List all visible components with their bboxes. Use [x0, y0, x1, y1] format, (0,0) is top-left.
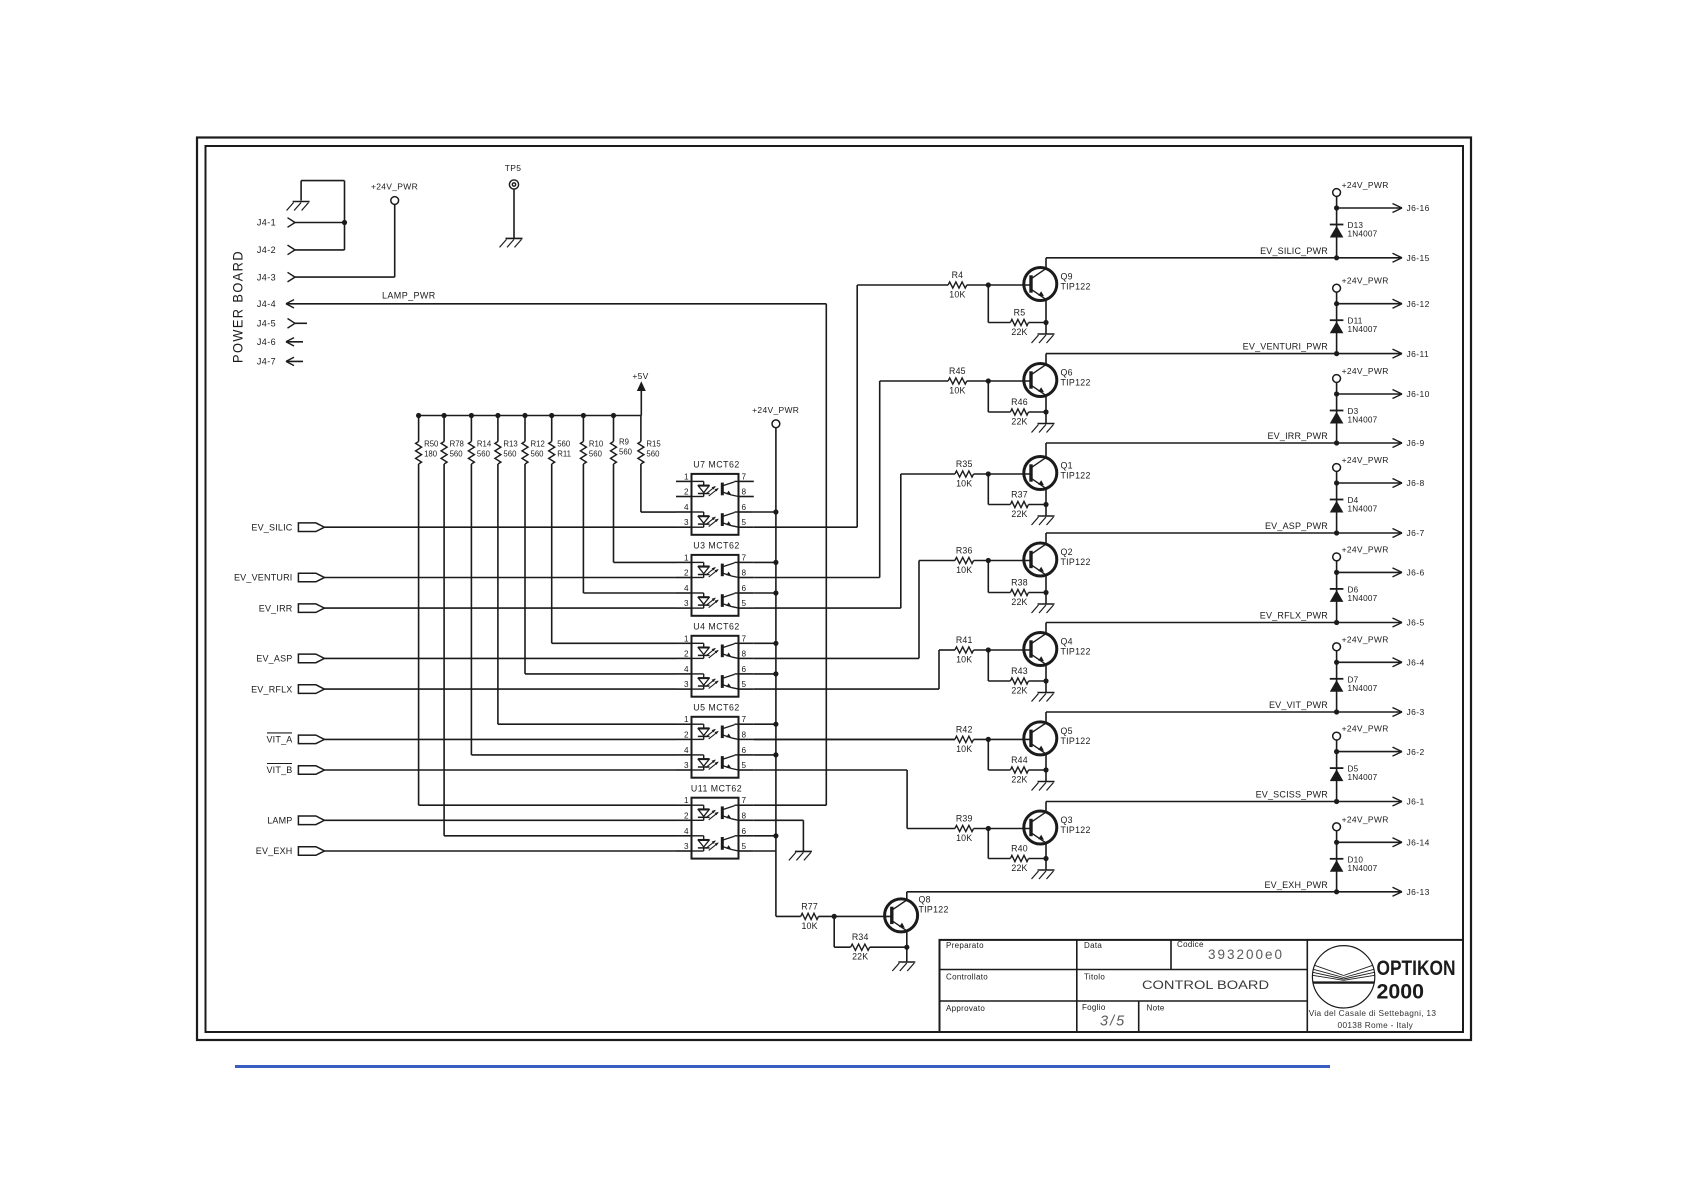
label +24V_PWR (EV_ASP_PWR) [1342, 455, 1389, 465]
svg-text:6: 6 [742, 827, 747, 836]
wire +24V down through diode D4 [1336, 471, 1338, 533]
connector pin J4-3 [288, 272, 296, 282]
arrow J6-11 [1393, 349, 1403, 358]
svg-text:R78: R78 [450, 440, 464, 449]
label R11 value [557, 440, 571, 459]
wire R77 left from trunk [776, 915, 801, 917]
svg-text:1N4007: 1N4007 [1348, 505, 1378, 514]
optocoupler U11 MCT62 body [692, 798, 739, 859]
resistor R78 560 [441, 416, 447, 465]
svg-text:U5 MCT62: U5 MCT62 [693, 703, 740, 713]
U3 channel 2 LED and phototransistor [692, 593, 739, 608]
label J6-3 [1407, 707, 1425, 717]
junction emitter node Q6 [1043, 409, 1048, 414]
wire EV_SILIC to optocoupler [324, 526, 676, 528]
svg-text:U7 MCT62: U7 MCT62 [693, 460, 740, 470]
wire U4 pin7 to +24V trunk [754, 642, 776, 644]
label R35 [956, 459, 973, 469]
svg-text:VIT_B: VIT_B [266, 765, 292, 775]
junction base node Q1 [986, 471, 991, 476]
label Q9 TIP122 [1061, 282, 1091, 292]
svg-text:1: 1 [684, 715, 689, 724]
resistor R42 10K [955, 736, 974, 742]
U11 pin 5 stub [739, 850, 754, 852]
wire R42 left [754, 738, 955, 740]
svg-text:3/5: 3/5 [1100, 1014, 1126, 1030]
wire EV_IRR_PWR row [1046, 442, 1402, 444]
svg-text:J4-5: J4-5 [257, 319, 276, 329]
ground TP5 [500, 238, 523, 247]
junction +5V bus at R50 [416, 413, 421, 418]
U7 pin 5 stub [739, 526, 754, 528]
U3 pin 5 number [742, 599, 747, 608]
wire R12 column down and over to optocoupler anode [525, 464, 676, 674]
junction +24V trunk at U11 [773, 833, 778, 838]
wire to J6-2 [1337, 751, 1402, 753]
svg-text:22K: 22K [1011, 686, 1027, 696]
svg-text:J6-3: J6-3 [1407, 707, 1425, 717]
label R45 [949, 366, 966, 376]
svg-text:OPTIKON: OPTIKON [1377, 956, 1456, 980]
title block frame [940, 940, 1464, 1032]
ground for J4-1/J4-2 [287, 202, 310, 211]
svg-text:4: 4 [684, 503, 689, 512]
wire R4 left [857, 284, 948, 286]
wire EV_SCISS_PWR row [1046, 801, 1402, 803]
junction +5V bus at R14 [469, 413, 474, 418]
svg-text:EV_SILIC_PWR: EV_SILIC_PWR [1260, 246, 1328, 256]
resistor R13 560 [495, 416, 501, 465]
svg-text:EV_RFLX: EV_RFLX [251, 684, 292, 694]
resistor R50 180 [416, 416, 422, 465]
arrow J6-6 [1393, 568, 1403, 577]
svg-text:Controllato: Controllato [946, 973, 988, 982]
svg-text:10K: 10K [801, 921, 817, 931]
arrow J6-15 [1393, 253, 1403, 262]
wire Q4 collector [1045, 623, 1047, 634]
wire base node down to R43 [988, 650, 1010, 681]
ground Q8 emitter [892, 962, 915, 971]
wire EV_VENTURI to optocoupler [324, 577, 676, 579]
wire +24V down through diode D6 [1336, 561, 1338, 623]
resistor R4 10K [948, 282, 967, 288]
ground Q6 emitter [1032, 424, 1055, 433]
svg-text:22K: 22K [1011, 775, 1027, 785]
svg-text:J6-11: J6-11 [1407, 349, 1430, 359]
resistor R12 560 [522, 416, 528, 465]
svg-text:+24V_PWR: +24V_PWR [371, 182, 418, 192]
connector pin J4-1 [288, 218, 296, 228]
arrow J6-12 [1393, 299, 1403, 308]
transistor Q9 TIP122 [1024, 268, 1057, 301]
net label EV_IRR [259, 603, 293, 613]
svg-text:J6-4: J6-4 [1407, 658, 1425, 668]
svg-text:7: 7 [742, 553, 747, 562]
transistor Q8 TIP122 [885, 899, 918, 932]
label D13 value 1N4007 [1348, 230, 1378, 239]
net label EV_RFLX_PWR [1260, 611, 1329, 621]
signal flag EV_IRR [298, 604, 324, 613]
junction +5V bus at R10 [581, 413, 586, 418]
junction J6-12 branch [1334, 301, 1339, 306]
U4 pin 5 number [742, 680, 747, 689]
U3 pin 6 stub [739, 592, 754, 594]
U7 pin 1 stub [676, 480, 692, 482]
signal flag EV_EXH [298, 847, 324, 856]
ground U11 pin8 [789, 851, 812, 860]
junction EV_VIT_PWR node [1334, 709, 1339, 714]
label R41 value 10K [956, 655, 972, 665]
ground Q9 emitter [1032, 334, 1055, 343]
resistor R38 22K [1010, 589, 1028, 595]
svg-text:U4 MCT62: U4 MCT62 [693, 622, 740, 632]
U11 pin 6 stub [739, 835, 754, 837]
svg-text:1N4007: 1N4007 [1348, 416, 1378, 425]
label Q3 [1061, 815, 1073, 825]
svg-text:R44: R44 [1011, 755, 1028, 765]
U3 pin 2 stub [676, 577, 692, 579]
junction +5V bus at R13 [495, 413, 500, 418]
label J6-15 [1407, 253, 1430, 263]
svg-text:2000: 2000 [1377, 980, 1425, 1004]
U4 pin 7 number [742, 634, 747, 643]
svg-text:TIP122: TIP122 [1061, 825, 1091, 835]
svg-text:J4-4: J4-4 [257, 299, 276, 309]
junction EV_EXH_PWR node [1334, 889, 1339, 894]
wire R78 column down and over to optocoupler anode [444, 464, 676, 836]
power terminal +24V_PWR (block EV_VIT_PWR) [1333, 643, 1341, 651]
wire +24V down through diode D5 [1336, 740, 1338, 802]
wire EV_VENTURI_PWR row [1046, 353, 1402, 355]
resistor R77 10K [801, 913, 819, 919]
resistor R39 10K [955, 825, 974, 831]
arrow J6-1 [1393, 797, 1403, 806]
label D5 [1348, 765, 1359, 774]
label R37 value 22K [1011, 509, 1027, 519]
wire to J6-4 [1337, 661, 1402, 663]
wire R4 to base node [967, 284, 1031, 286]
label R44 [1011, 755, 1028, 765]
svg-text:7: 7 [742, 634, 747, 643]
label D10 value 1N4007 [1348, 864, 1378, 873]
label D6 value 1N4007 [1348, 594, 1378, 603]
arrow J6-16 [1393, 204, 1403, 213]
net label EV_VIT_PWR [1269, 700, 1328, 710]
U4 pin 7 stub [739, 642, 754, 644]
net label EV_IRR_PWR [1267, 431, 1328, 441]
label R9 value [619, 438, 633, 457]
U11 pin 2 stub [676, 819, 692, 821]
svg-text:EV_EXH: EV_EXH [256, 846, 293, 856]
svg-text:22K: 22K [1011, 597, 1027, 607]
arrow J6-13 [1393, 887, 1403, 896]
U5 pin 7 stub [739, 723, 754, 725]
label R38 value 22K [1011, 597, 1027, 607]
svg-text:+24V_PWR: +24V_PWR [1342, 180, 1389, 190]
wire base node down to R38 [988, 561, 1010, 593]
resistor R9 560 [611, 416, 617, 465]
svg-text:560: 560 [450, 450, 464, 459]
net label EV_SILIC [251, 522, 292, 532]
svg-text:+24V_PWR: +24V_PWR [1342, 814, 1389, 824]
power terminal +24V_PWR (block EV_EXH_PWR) [1333, 823, 1341, 831]
U5 channel 2 LED and phototransistor [692, 755, 739, 770]
junction J6-14 branch [1334, 840, 1339, 845]
junction EV_VENTURI_PWR node [1334, 351, 1339, 356]
label R77 value 10K [801, 921, 817, 931]
U5 pin 7 number [742, 715, 747, 724]
wire Q6 collector [1045, 354, 1047, 365]
svg-text:J6-5: J6-5 [1407, 618, 1425, 628]
wire U3 pin7 to +24V trunk [754, 561, 776, 563]
resistor R40 22K [1010, 855, 1028, 861]
svg-text:J6-10: J6-10 [1407, 389, 1430, 399]
svg-text:1N4007: 1N4007 [1348, 773, 1378, 782]
wire base node down to R44 [988, 739, 1010, 770]
svg-text:R34: R34 [852, 932, 869, 942]
U4 pin 6 stub [739, 673, 754, 675]
junction Q8 base node [832, 914, 837, 919]
svg-text:R37: R37 [1011, 490, 1028, 500]
label D7 value 1N4007 [1348, 684, 1378, 693]
wire R36 to base node [974, 560, 1031, 562]
U11 pin 3 number [684, 842, 689, 851]
junction J6-16 branch [1334, 205, 1339, 210]
U4 channel 1 LED and phototransistor [692, 643, 739, 658]
net label EV_EXH_PWR [1264, 880, 1328, 890]
svg-text:Q4: Q4 [1061, 637, 1073, 647]
power symbol +5V [632, 371, 648, 416]
transistor Q2 TIP122 [1024, 543, 1057, 576]
svg-text:Codice: Codice [1177, 940, 1204, 949]
svg-text:22K: 22K [1011, 863, 1027, 873]
svg-text:10K: 10K [956, 479, 972, 489]
svg-text:22K: 22K [1011, 417, 1027, 427]
svg-text:LAMP: LAMP [267, 816, 292, 826]
junction base node Q4 [986, 647, 991, 652]
U4 pin 3 number [684, 680, 689, 689]
power terminal +24V_PWR (center) [772, 420, 780, 428]
svg-text:8: 8 [742, 730, 747, 739]
resistor R37 22K [1010, 501, 1028, 507]
svg-text:8: 8 [742, 488, 747, 497]
svg-text:LAMP_PWR: LAMP_PWR [382, 290, 436, 300]
arrow J6-14 [1393, 838, 1403, 847]
wire Q1 emitter [1045, 488, 1047, 516]
svg-text:1: 1 [684, 796, 689, 805]
U11 pin 7 number [742, 796, 747, 805]
svg-text:R14: R14 [477, 440, 492, 449]
resistor R44 22K [1010, 767, 1028, 773]
arrow J6-9 [1393, 439, 1403, 448]
svg-text:1N4007: 1N4007 [1348, 230, 1378, 239]
wire R39 left [907, 828, 955, 830]
svg-text:2: 2 [684, 811, 689, 820]
wire top of J4 ground loop [301, 181, 344, 201]
wire R41 to base node [974, 649, 1031, 651]
wire R37 to emitter [1029, 504, 1047, 506]
junction +5V bus at R9 [611, 413, 616, 418]
junction base node Q3 [986, 826, 991, 831]
outer border frame [197, 138, 1471, 1041]
label Q1 TIP122 [1061, 471, 1091, 481]
wire U4 pin8 to riser [754, 561, 919, 659]
svg-text:J4-6: J4-6 [257, 337, 276, 347]
label R40 value 22K [1011, 863, 1027, 873]
wire R40 to emitter [1029, 858, 1047, 860]
junction emitter node Q5 [1043, 767, 1048, 772]
resistor R43 22K [1010, 678, 1028, 684]
POWER BOARD label [231, 250, 246, 363]
inner border frame [206, 146, 1464, 1032]
U11 channel 2 LED and phototransistor [692, 836, 739, 851]
label R36 [956, 546, 973, 556]
svg-text:TIP122: TIP122 [1061, 557, 1091, 567]
svg-text:7: 7 [742, 715, 747, 724]
U5 channel 1 LED and phototransistor [692, 724, 739, 739]
junction +24V trunk at U3 [773, 590, 778, 595]
diode D3 1N4007 [1330, 411, 1344, 424]
signal flag VIT_A [298, 735, 324, 744]
label +24V_PWR (EV_EXH_PWR) [1342, 814, 1389, 824]
label J6-9 [1407, 438, 1425, 448]
svg-text:R13: R13 [503, 440, 517, 449]
svg-text:R15: R15 [646, 440, 661, 449]
net label EV_SCISS_PWR [1256, 790, 1329, 800]
U3 pin 8 stub [739, 577, 754, 579]
wire +24V down through diode D11 [1336, 292, 1338, 354]
svg-text:POWER BOARD: POWER BOARD [231, 250, 246, 363]
svg-text:TIP122: TIP122 [1061, 736, 1091, 746]
connector pin J4-7 arrow [286, 357, 294, 365]
svg-text:EV_SCISS_PWR: EV_SCISS_PWR [1256, 790, 1329, 800]
arrow J6-3 [1393, 708, 1403, 717]
ground Q5 emitter [1032, 782, 1055, 791]
svg-text:5: 5 [742, 518, 747, 527]
svg-text:R45: R45 [949, 366, 966, 376]
label +24V_PWR (EV_SCISS_PWR) [1342, 724, 1389, 734]
label Q2 TIP122 [1061, 557, 1091, 567]
wire J4-2 to node [295, 249, 345, 251]
wire R39 to base node [974, 828, 1031, 830]
label D10 [1348, 855, 1364, 864]
wire stub J4-6 [286, 341, 303, 343]
test point TP5 label [505, 163, 522, 173]
label R46 value 22K [1011, 417, 1027, 427]
label R34 [852, 932, 869, 942]
wire R13 column down and over to optocoupler anode [498, 464, 676, 724]
wire Q8 emitter [906, 931, 908, 962]
U3 pin 4 number [684, 584, 689, 593]
wire +5V bus [419, 415, 642, 417]
label R42 [956, 724, 973, 734]
svg-text:4: 4 [684, 665, 689, 674]
U3 pin 3 stub [676, 607, 692, 609]
label R5 [1014, 308, 1026, 318]
label +24V_PWR (EV_VIT_PWR) [1342, 634, 1389, 644]
svg-text:3: 3 [684, 599, 689, 608]
optocoupler U7 MCT62 body [692, 474, 739, 535]
svg-text:560: 560 [503, 450, 517, 459]
value Codice 393200e0 [1208, 947, 1284, 962]
svg-text:2: 2 [684, 649, 689, 658]
svg-text:Note: Note [1147, 1004, 1165, 1013]
junction +24V trunk at U4 [773, 671, 778, 676]
svg-text:4: 4 [684, 584, 689, 593]
wire U11 pin5 to trunk column [754, 850, 776, 852]
svg-text:Approvato: Approvato [946, 1004, 985, 1013]
svg-text:TIP122: TIP122 [1061, 471, 1091, 481]
connector pin J4-5 label [257, 319, 276, 329]
power terminal +24V_PWR (block EV_VENTURI_PWR) [1333, 284, 1341, 292]
wire EV_RFLX to optocoupler [324, 688, 676, 690]
signal flag EV_SILIC [298, 523, 324, 532]
label R5 value 22K [1011, 327, 1027, 337]
svg-text:U3 MCT62: U3 MCT62 [693, 541, 740, 551]
arrow J6-5 [1393, 618, 1403, 627]
resistor R36 10K [955, 557, 974, 563]
U11 pin 1 stub [676, 804, 692, 806]
junction Q8 emitter node [904, 945, 909, 950]
svg-text:3: 3 [684, 680, 689, 689]
junction J6-8 branch [1334, 480, 1339, 485]
svg-text:560: 560 [477, 450, 491, 459]
label +24V_PWR (EV_SILIC_PWR) [1342, 180, 1389, 190]
connector pin J4-4 arrow [286, 300, 294, 308]
label J6-8 [1407, 478, 1425, 488]
label R12 value [531, 440, 545, 459]
svg-text:560: 560 [589, 450, 603, 459]
U5 pin 3 number [684, 761, 689, 770]
junction +24V trunk at U5 [773, 722, 778, 727]
svg-text:J4-2: J4-2 [257, 245, 276, 255]
junction +5V bus at R12 [522, 413, 527, 418]
signal flag EV_ASP [298, 654, 324, 663]
U4 pin 4 stub [676, 673, 692, 675]
label Q8 [919, 895, 931, 905]
svg-text:J6-16: J6-16 [1407, 203, 1430, 213]
wire +24V down through diode D7 [1336, 651, 1338, 712]
svg-text:6: 6 [742, 746, 747, 755]
label D11 value 1N4007 [1348, 325, 1378, 334]
signal flag LAMP [298, 816, 324, 825]
U3 pin 7 number [742, 553, 747, 562]
wire +24V down through diode D13 [1336, 196, 1338, 257]
U5 pin 8 stub [739, 738, 754, 740]
logo text 2000 [1377, 980, 1425, 1004]
wire Q1 collector [1045, 443, 1047, 458]
U5 pin 5 stub [739, 769, 754, 771]
svg-text:10K: 10K [956, 565, 972, 575]
U5 pin 4 number [684, 746, 689, 755]
wire Q8 base node down to R34 [834, 916, 850, 947]
svg-text:TIP122: TIP122 [1061, 378, 1091, 388]
power terminal +24V_PWR (block EV_SCISS_PWR) [1333, 732, 1341, 740]
arrow J6-4 [1393, 658, 1403, 667]
transistor Q5 TIP122 [1024, 722, 1057, 755]
label J6-12 [1407, 299, 1430, 309]
U3 pin 3 number [684, 599, 689, 608]
wire R9 column down and over to optocoupler anode [614, 464, 677, 562]
U7 pin 4 stub [676, 511, 692, 513]
U7 pin 8 stub [739, 496, 754, 498]
svg-text:00138 Rome - Italy: 00138 Rome - Italy [1338, 1020, 1414, 1030]
junction J6-4 branch [1334, 660, 1339, 665]
wire Q5 emitter [1045, 754, 1047, 782]
svg-text:R42: R42 [956, 724, 973, 734]
svg-text:10K: 10K [949, 290, 965, 300]
label R37 [1011, 490, 1028, 500]
